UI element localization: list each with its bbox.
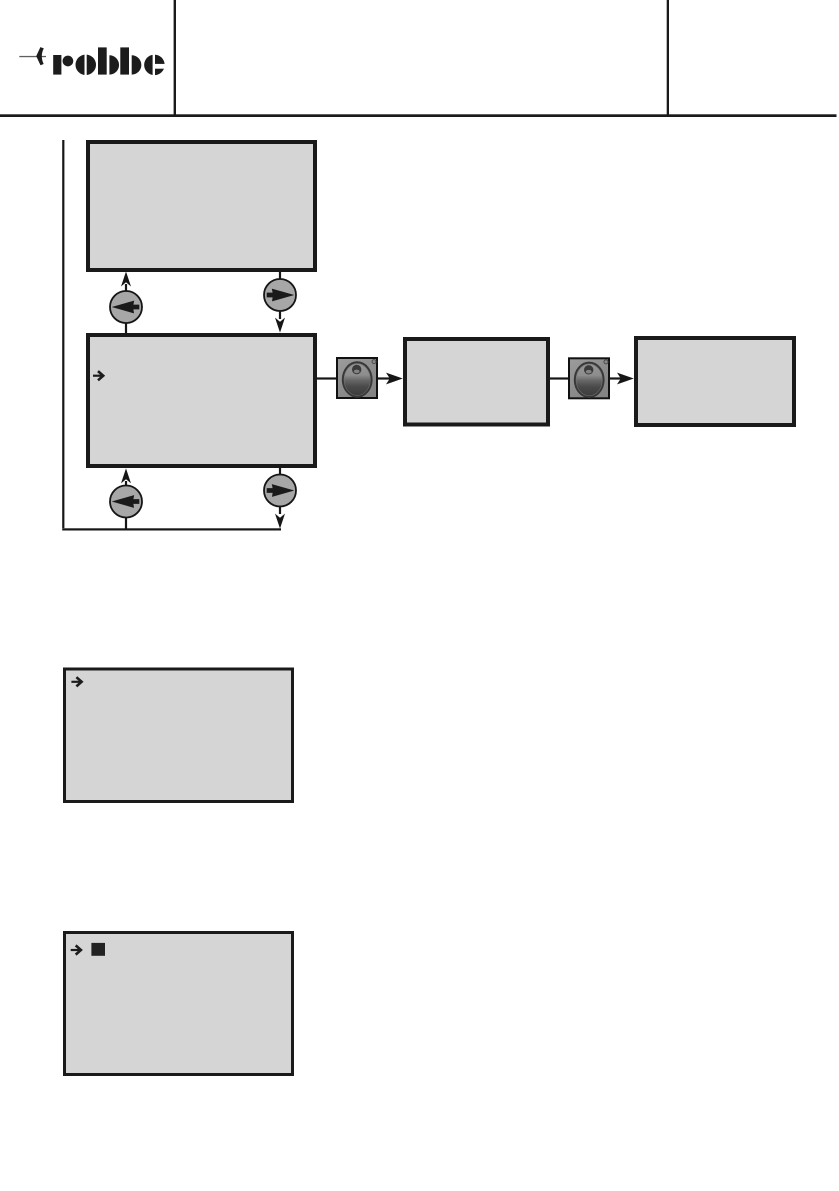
wire box2 bottom to right rotary circle lower	[279, 468, 281, 514]
box 1 top display frame	[88, 142, 315, 270]
arrowhead down into loop wire	[275, 514, 285, 529]
logo letter o	[76, 54, 97, 77]
black square marker in box 6	[91, 943, 105, 956]
rotary right circle upper	[264, 279, 296, 311]
cursor arrow in box 2	[93, 371, 103, 380]
header bottom horizontal rule	[0, 114, 837, 117]
logo letter e	[144, 54, 165, 77]
arrowhead into box3	[386, 373, 403, 385]
box 5 display frame	[65, 669, 293, 802]
box 3 display frame	[405, 339, 548, 425]
logo flight line	[19, 56, 46, 57]
wire left rotary circle lower	[125, 481, 127, 529]
robbe logo	[19, 47, 165, 76]
arrowhead up into box1	[121, 272, 131, 287]
arrowhead down into box2	[275, 318, 285, 333]
logo letter b first	[98, 47, 119, 74]
wire knob2 to box4	[610, 377, 624, 379]
arrowhead up into box2 bottom	[121, 468, 131, 483]
box 4 display frame	[636, 338, 794, 425]
wire loop-back left vertical segment	[62, 140, 64, 528]
3D rotary knob icon second	[569, 358, 609, 398]
rotary right circle lower	[264, 475, 296, 507]
wire knob1 to box3	[378, 377, 391, 379]
header divider vertical line left	[174, 0, 176, 116]
logo letter b second	[120, 47, 141, 74]
box 2 main display frame	[88, 335, 315, 466]
logo airplane chevron	[36, 47, 44, 65]
rotary left circle lower	[110, 486, 142, 518]
rotary left circle upper	[110, 291, 142, 323]
wire loop-back bottom horizontal segment	[62, 528, 281, 530]
arrowhead into box4	[617, 373, 634, 385]
logo letter r	[53, 55, 73, 75]
wire box1 to left rotary circle	[125, 284, 127, 333]
3D rotary knob icon first	[337, 358, 377, 398]
cursor arrow in box 6	[71, 945, 81, 954]
header divider vertical line right	[667, 0, 669, 116]
wire box2 to 3D rotary knob	[317, 377, 337, 379]
wire box3 to 3D rotary knob second	[550, 377, 568, 379]
wire box1 down to right rotary circle	[279, 272, 281, 319]
box 6 display frame	[65, 933, 293, 1075]
cursor arrow in box 5	[71, 677, 81, 686]
